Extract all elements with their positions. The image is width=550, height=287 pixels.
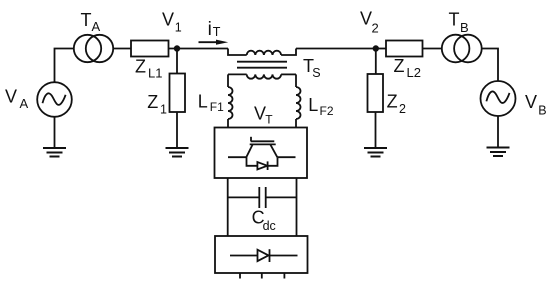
terminal ticks under U2	[240, 273, 284, 279]
node V2	[360, 9, 379, 52]
svg-text:L1: L1	[148, 66, 162, 81]
svg-text:V: V	[162, 10, 174, 30]
svg-text:1: 1	[160, 103, 167, 117]
transistor Q1 (IGBT)	[228, 137, 296, 157]
transformer TB	[442, 10, 482, 63]
node V1	[162, 10, 182, 52]
wire VA to ground	[54, 117, 56, 148]
svg-text:L: L	[198, 92, 208, 112]
impedance ZL1	[131, 41, 169, 81]
svg-text:T: T	[213, 25, 221, 39]
svg-text:1: 1	[175, 21, 182, 35]
svg-text:T: T	[81, 10, 92, 30]
series transformer TS	[228, 49, 321, 81]
svg-text:i: i	[208, 19, 212, 40]
svg-text:F2: F2	[320, 104, 334, 118]
diode D1 (anti-parallel)	[247, 157, 278, 170]
wire TS to V2	[296, 48, 376, 50]
svg-text:Z: Z	[135, 57, 146, 77]
rectifier box U2	[215, 236, 308, 273]
svg-text:A: A	[92, 19, 101, 34]
svg-text:2: 2	[372, 21, 379, 36]
converter box U1	[215, 104, 308, 178]
svg-text:B: B	[538, 104, 546, 118]
wire ZL2 to TB	[423, 48, 442, 50]
ground under Z1	[166, 148, 189, 157]
impedance Z2	[368, 74, 407, 116]
svg-text:dc: dc	[263, 219, 276, 233]
svg-text:2: 2	[399, 102, 406, 116]
wire Z1 to ground	[176, 112, 178, 148]
svg-text:S: S	[312, 66, 320, 80]
wire Z2 to ground	[375, 112, 377, 148]
wire VB to ground	[497, 116, 499, 147]
wire V1 to Z1	[176, 49, 178, 74]
svg-text:V: V	[360, 9, 372, 29]
transformer TA	[74, 10, 113, 62]
svg-text:T: T	[449, 10, 460, 30]
current arrow iT	[199, 19, 229, 45]
ground under Z2	[364, 148, 387, 157]
inductor LF1	[198, 74, 233, 127]
wire ZL1 to TS	[169, 48, 229, 50]
inductor LF2	[296, 74, 334, 127]
svg-text:B: B	[460, 20, 469, 35]
svg-text:V: V	[525, 92, 537, 112]
wire TB to VB	[482, 49, 498, 82]
wire VA to TA	[55, 49, 74, 83]
svg-text:L2: L2	[407, 65, 421, 80]
capacitor Cdc	[228, 187, 297, 233]
svg-text:T: T	[265, 112, 273, 126]
impedance ZL2	[386, 41, 423, 81]
wire dc link right	[296, 178, 298, 236]
voltage source VB	[481, 81, 547, 118]
svg-text:L: L	[308, 95, 318, 115]
ground under VA	[43, 148, 66, 157]
svg-text:A: A	[20, 96, 29, 111]
voltage source VA	[5, 82, 72, 117]
svg-text:F1: F1	[210, 100, 224, 114]
svg-text:Z: Z	[147, 92, 158, 112]
wire V2 to Z2	[375, 49, 377, 75]
svg-text:V: V	[5, 87, 17, 107]
wire dc link left	[227, 178, 229, 236]
diode D2	[230, 249, 298, 262]
svg-text:Z: Z	[394, 56, 405, 76]
impedance Z1	[147, 74, 185, 117]
wire TA to ZL1	[113, 48, 131, 50]
ground under VB	[487, 148, 510, 157]
svg-text:Z: Z	[387, 92, 398, 112]
wire V2 to ZL2	[376, 48, 386, 50]
